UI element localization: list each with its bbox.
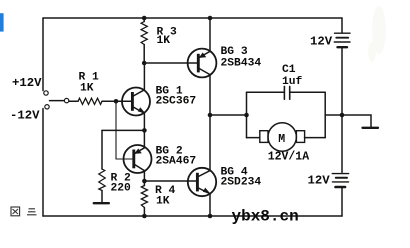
- wire emitter junction to R2: [102, 129, 144, 131]
- svg-text:BG 3: BG 3: [221, 46, 248, 58]
- svg-text:1K: 1K: [80, 83, 94, 95]
- node battery tap: [340, 113, 345, 118]
- wire base node vertical: [115, 101, 117, 159]
- resistor R3: [141, 22, 147, 45]
- wire BG3 emitter to rail: [209, 18, 211, 51]
- wire R1 to base node to BG1 base: [102, 100, 132, 102]
- wire BG3 base: [144, 62, 198, 64]
- switch pole terminal: [64, 98, 68, 102]
- wire output node to bridge: [210, 114, 247, 116]
- node BG3 emitter rail: [208, 16, 213, 21]
- caption glyph san (three): [27, 209, 37, 215]
- wire bridge top left to C1: [247, 91, 285, 93]
- transistor BG1: [122, 88, 150, 116]
- wire motor left lead: [247, 137, 260, 139]
- svg-text:ybx8.cn: ybx8.cn: [232, 208, 299, 226]
- node R3 top: [142, 16, 147, 21]
- wire R4 bottom lead: [143, 208, 145, 217]
- svg-text:C1: C1: [282, 64, 296, 76]
- caption glyph tu (figure): [11, 207, 20, 216]
- wire bridge left vertical: [246, 92, 248, 137]
- wire battery column middle: [341, 48, 343, 172]
- svg-text:+12V: +12V: [12, 76, 42, 90]
- wire BG2 base lead: [116, 158, 134, 160]
- capacitor C1 plates: [283, 86, 285, 99]
- wire top rail: [43, 17, 342, 19]
- wire R1 left lead: [69, 100, 78, 102]
- wire R2 bottom lead: [101, 191, 103, 203]
- wire left -12V drop: [42, 109, 44, 217]
- svg-text:12V: 12V: [308, 174, 331, 188]
- node R4 bottom rail: [142, 214, 147, 219]
- wire motor right lead: [305, 137, 326, 139]
- node BG2 collector / R4: [142, 179, 147, 184]
- wire R4 top lead: [143, 181, 145, 186]
- wire R2 top lead: [101, 130, 103, 169]
- wire BG4 emitter down: [209, 194, 211, 216]
- wire ground stub right: [342, 115, 371, 127]
- switch SW arm: [50, 100, 65, 102]
- svg-text:M: M: [278, 133, 285, 146]
- svg-text:1uf: 1uf: [282, 76, 303, 88]
- node emitter junction: [142, 128, 147, 133]
- wire BG1 collector up: [143, 63, 145, 90]
- motor M body: [268, 123, 296, 151]
- svg-text:2SD234: 2SD234: [221, 177, 262, 189]
- node output mid: [208, 113, 213, 118]
- resistor R1: [78, 98, 102, 104]
- svg-text:1K: 1K: [157, 35, 171, 47]
- wire bridge tap to battery line: [325, 114, 342, 116]
- motor M brush right: [296, 131, 304, 143]
- wire BG4 base: [144, 180, 197, 182]
- resistor R2: [99, 169, 105, 191]
- wire battery column bottom: [341, 188, 343, 216]
- wire R3 bottom lead: [143, 45, 145, 64]
- svg-text:12V: 12V: [310, 35, 333, 49]
- transistor BG4: [188, 168, 216, 196]
- motor M brush left: [260, 131, 268, 143]
- switch terminal -12V: [45, 105, 49, 109]
- svg-text:-12V: -12V: [10, 109, 40, 123]
- wire BG2 collector down: [143, 171, 145, 181]
- blue margin marker: [0, 13, 4, 31]
- resistor R4: [141, 186, 147, 208]
- node BG4 emitter rail: [208, 214, 213, 219]
- node bridge left: [244, 113, 249, 118]
- battery B1 plates: [335, 32, 351, 34]
- wire battery column top: [341, 18, 343, 33]
- svg-text:220: 220: [111, 183, 132, 195]
- wire C1 to bridge top right: [290, 91, 325, 93]
- svg-text:1K: 1K: [156, 196, 170, 208]
- wire bottom rail: [43, 215, 342, 217]
- wire mid vertical BG3 collector to BG4 collector: [209, 75, 211, 171]
- wire R3 top lead: [143, 18, 145, 22]
- ground G2 bar: [363, 127, 379, 129]
- wire BG1 emitter down: [143, 113, 145, 130]
- wire BG2 emitter up: [143, 130, 145, 147]
- svg-text:12V/1A: 12V/1A: [268, 151, 310, 164]
- svg-text:2SA467: 2SA467: [156, 156, 197, 168]
- transistor BG3: [188, 49, 217, 78]
- node base join: [114, 99, 119, 104]
- wire bridge right vertical: [324, 92, 326, 137]
- svg-text:2SC367: 2SC367: [156, 96, 197, 108]
- node R3 bottom / BG3 base: [142, 61, 147, 66]
- transistor BG2: [124, 145, 152, 173]
- switch terminal +12V: [44, 91, 48, 95]
- wire left +12V drop: [42, 18, 44, 91]
- ground G1 bar: [94, 202, 109, 204]
- svg-text:2SB434: 2SB434: [221, 58, 262, 70]
- battery B2 plates: [332, 173, 348, 175]
